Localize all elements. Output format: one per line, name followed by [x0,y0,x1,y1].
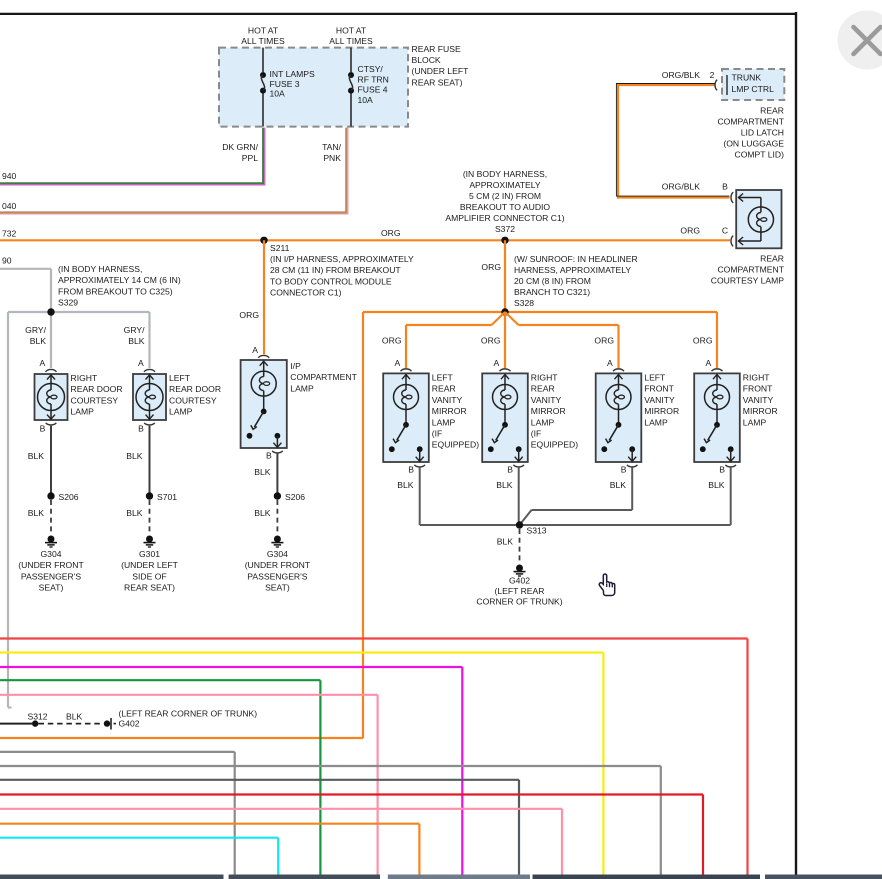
svg-text:VANITY: VANITY [432,395,463,405]
svg-text:040: 040 [2,201,17,211]
svg-text:B: B [621,465,627,475]
svg-text:S701: S701 [157,492,177,502]
svg-text:BLK: BLK [66,712,83,722]
svg-text:(IF: (IF [432,429,443,439]
svg-text:BREAKOUT TO AUDIO: BREAKOUT TO AUDIO [460,202,551,212]
svg-text:A: A [394,358,400,368]
svg-text:ORG: ORG [382,336,402,346]
svg-text:LAMP: LAMP [71,407,95,417]
svg-text:BLK: BLK [254,508,271,518]
svg-text:A: A [138,358,144,368]
svg-text:LAMP: LAMP [531,417,555,427]
svg-text:FROM BREAKOUT TO C325): FROM BREAKOUT TO C325) [58,286,173,296]
svg-text:(UNDER LEFT: (UNDER LEFT [412,66,470,76]
svg-text:ORG: ORG [680,226,700,236]
svg-text:BLK: BLK [496,480,513,490]
svg-text:BLK: BLK [254,467,271,477]
svg-text:TO BODY CONTROL MODULE: TO BODY CONTROL MODULE [270,276,392,286]
svg-text:A: A [493,358,499,368]
svg-text:TAN/: TAN/ [322,142,342,152]
svg-text:G301: G301 [139,549,160,559]
svg-text:LMP CTRL: LMP CTRL [732,84,775,94]
svg-text:(IF: (IF [531,429,542,439]
svg-text:MIRROR: MIRROR [644,406,679,416]
svg-text:RF TRN: RF TRN [358,74,389,84]
svg-text:B: B [719,465,725,475]
svg-text:RIGHT: RIGHT [71,373,98,383]
svg-text:10A: 10A [270,89,286,99]
svg-text:LAMP: LAMP [169,407,193,417]
svg-text:732: 732 [2,229,17,239]
svg-text:90: 90 [2,256,12,266]
svg-text:G402: G402 [509,576,530,586]
svg-text:PPL: PPL [242,153,258,163]
svg-text:C: C [722,226,728,236]
svg-text:S329: S329 [58,298,78,308]
svg-text:BLK: BLK [28,451,45,461]
svg-text:HOT AT: HOT AT [336,26,367,36]
svg-text:LAMP: LAMP [644,417,668,427]
svg-text:RIGHT: RIGHT [531,373,558,383]
svg-text:CTSY/: CTSY/ [358,64,384,74]
svg-text:A: A [252,345,258,355]
svg-text:VANITY: VANITY [743,395,774,405]
svg-text:TRUNK: TRUNK [732,73,762,83]
svg-text:BLK: BLK [30,336,47,346]
svg-text:B: B [138,423,144,433]
svg-text:GRY/: GRY/ [25,325,46,335]
svg-text:REAR DOOR: REAR DOOR [71,384,123,394]
svg-text:APPROXIMATELY 14 CM (6 IN): APPROXIMATELY 14 CM (6 IN) [58,275,181,285]
svg-text:MIRROR: MIRROR [743,406,778,416]
svg-text:COURTESY: COURTESY [71,395,119,405]
svg-text:S328: S328 [514,298,534,308]
svg-text:GRY/: GRY/ [124,325,145,335]
svg-text:20 CM (8 IN) FROM: 20 CM (8 IN) FROM [514,276,591,286]
svg-text:BLOCK: BLOCK [412,55,441,65]
svg-text:ORG: ORG [481,336,501,346]
svg-text:(IN BODY HARNESS,: (IN BODY HARNESS, [58,264,142,274]
svg-text:REAR: REAR [432,384,456,394]
svg-text:LAMP: LAMP [290,383,314,393]
svg-text:G304: G304 [40,549,61,559]
svg-text:BLK: BLK [126,508,143,518]
svg-text:VANITY: VANITY [531,395,562,405]
svg-text:S206: S206 [59,492,79,502]
svg-text:PASSENGER'S: PASSENGER'S [21,571,81,581]
svg-text:ORG: ORG [239,310,259,320]
svg-text:LEFT: LEFT [169,373,191,383]
svg-text:COURTESY: COURTESY [169,395,217,405]
svg-text:HARNESS, APPROXIMATELY: HARNESS, APPROXIMATELY [514,265,631,275]
svg-text:RIGHT: RIGHT [743,373,770,383]
svg-text:REAR DOOR: REAR DOOR [169,384,221,394]
svg-text:COMPARTMENT: COMPARTMENT [290,372,357,382]
svg-text:I/P: I/P [290,361,301,371]
svg-text:COURTESY LAMP: COURTESY LAMP [711,276,784,286]
svg-text:LAMP: LAMP [432,417,456,427]
svg-text:PASSENGER'S: PASSENGER'S [247,571,307,581]
svg-text:LEFT: LEFT [644,373,666,383]
svg-text:BLK: BLK [28,508,45,518]
svg-text:940: 940 [2,171,17,181]
svg-text:INT LAMPS: INT LAMPS [270,69,315,79]
svg-text:REAR: REAR [760,106,784,116]
svg-text:DK GRN/: DK GRN/ [222,142,258,152]
svg-text:MIRROR: MIRROR [432,406,467,416]
svg-text:HOT AT: HOT AT [248,26,279,36]
svg-text:LEFT: LEFT [432,373,454,383]
svg-text:APPROXIMATELY: APPROXIMATELY [469,180,541,190]
svg-text:MIRROR: MIRROR [531,406,566,416]
svg-text:28 CM (11 IN) FROM BREAKOUT: 28 CM (11 IN) FROM BREAKOUT [270,265,401,275]
svg-text:REAR SEAT): REAR SEAT) [124,583,175,593]
svg-text:BRANCH TO C321): BRANCH TO C321) [514,287,590,297]
svg-text:A: A [39,358,45,368]
svg-text:ORG: ORG [594,336,614,346]
svg-text:REAR: REAR [760,254,784,264]
svg-text:(UNDER FRONT: (UNDER FRONT [245,560,311,570]
svg-text:SEAT): SEAT) [265,583,290,593]
svg-text:S313: S313 [527,526,547,536]
svg-text:ORG: ORG [381,228,401,238]
svg-text:5 CM (2 IN) FROM: 5 CM (2 IN) FROM [469,191,541,201]
svg-text:S312: S312 [28,712,48,722]
svg-text:B: B [266,451,272,461]
svg-text:FUSE 3: FUSE 3 [270,79,300,89]
svg-text:ORG/BLK: ORG/BLK [662,70,700,80]
svg-text:(LEFT REAR: (LEFT REAR [495,586,545,596]
svg-text:B: B [722,182,728,192]
svg-text:FRONT: FRONT [644,384,674,394]
svg-text:G402: G402 [119,718,140,728]
svg-text:(LEFT REAR CORNER OF TRUNK): (LEFT REAR CORNER OF TRUNK) [119,708,258,718]
svg-text:REAR: REAR [531,384,555,394]
svg-text:BLK: BLK [610,480,627,490]
svg-text:REAR FUSE: REAR FUSE [412,44,461,54]
svg-text:EQUIPPED): EQUIPPED) [432,440,479,450]
svg-text:LAMP: LAMP [743,417,767,427]
svg-text:(IN I/P HARNESS, APPROXIMATELY: (IN I/P HARNESS, APPROXIMATELY [270,254,414,264]
svg-text:SIDE OF: SIDE OF [132,571,166,581]
svg-text:(UNDER LEFT: (UNDER LEFT [121,560,179,570]
svg-text:COMPARTMENT: COMPARTMENT [717,265,784,275]
svg-text:BLK: BLK [497,537,514,547]
svg-text:A: A [705,358,711,368]
svg-text:VANITY: VANITY [644,395,675,405]
svg-text:BLK: BLK [126,451,143,461]
svg-text:REAR SEAT): REAR SEAT) [412,77,463,87]
svg-text:BLK: BLK [397,480,414,490]
svg-text:ALL TIMES: ALL TIMES [329,36,373,46]
svg-text:S211: S211 [270,243,290,253]
svg-text:BLK: BLK [708,480,725,490]
svg-text:SEAT): SEAT) [39,583,64,593]
svg-text:CONNECTOR C1): CONNECTOR C1) [270,288,342,298]
svg-text:COMPARTMENT: COMPARTMENT [717,117,784,127]
svg-text:EQUIPPED): EQUIPPED) [531,440,578,450]
svg-text:COMPT LID): COMPT LID) [735,150,785,160]
svg-text:BLK: BLK [128,336,145,346]
svg-text:CORNER OF TRUNK): CORNER OF TRUNK) [476,597,562,607]
svg-text:FUSE 4: FUSE 4 [358,85,388,95]
svg-text:FRONT: FRONT [743,384,773,394]
svg-text:(ON LUGGAGE: (ON LUGGAGE [723,139,784,149]
svg-text:S206: S206 [285,492,305,502]
svg-text:LID LATCH: LID LATCH [741,128,784,138]
svg-text:ORG: ORG [693,336,713,346]
svg-text:10A: 10A [358,95,374,105]
svg-text:(IN BODY HARNESS,: (IN BODY HARNESS, [463,169,547,179]
svg-text:A: A [607,358,613,368]
svg-text:AMPLIFIER CONNECTOR C1): AMPLIFIER CONNECTOR C1) [445,213,564,223]
svg-text:ORG/BLK: ORG/BLK [662,182,700,192]
svg-text:B: B [408,465,414,475]
svg-text:ORG: ORG [481,262,501,272]
svg-text:2: 2 [710,70,715,80]
svg-text:(UNDER FRONT: (UNDER FRONT [18,560,84,570]
svg-text:PNK: PNK [323,153,341,163]
svg-text:B: B [507,465,513,475]
svg-text:ALL TIMES: ALL TIMES [241,36,285,46]
svg-text:S372: S372 [495,224,515,234]
svg-text:G304: G304 [267,549,288,559]
svg-text:(W/ SUNROOF: IN HEADLINER: (W/ SUNROOF: IN HEADLINER [514,254,638,264]
svg-text:B: B [40,423,46,433]
